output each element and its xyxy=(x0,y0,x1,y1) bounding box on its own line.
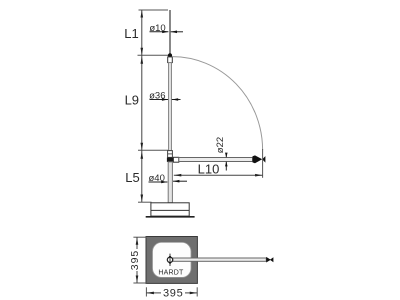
arrow o10 left xyxy=(162,31,168,34)
collar at arm joint xyxy=(168,151,173,158)
extension tick square bottom-right xyxy=(196,287,198,296)
position mark vertical line xyxy=(169,254,171,266)
svg-text:L5: L5 xyxy=(125,170,139,185)
svg-text:ø36: ø36 xyxy=(149,91,165,102)
svg-text:L10: L10 xyxy=(198,162,220,177)
arrow 395 bottom left xyxy=(147,292,154,295)
bowtie arm end (bottom view) xyxy=(266,257,273,263)
ground line xyxy=(146,216,195,218)
arrow o22 down xyxy=(225,153,228,158)
leader o10 underline xyxy=(150,31,169,33)
node dot joint xyxy=(168,53,172,57)
dimension line 395 left upper xyxy=(136,237,138,249)
pole bottom section o40 xyxy=(168,162,172,203)
svg-text:395: 395 xyxy=(163,287,183,299)
inner rounded cutout xyxy=(153,242,192,277)
bowtie arm end (side view) xyxy=(253,155,266,163)
extension line top (pole top) xyxy=(139,9,169,11)
arrow o36 left xyxy=(162,98,168,101)
extension line joint L9/L5 xyxy=(138,149,168,151)
arrow o36 right with tail xyxy=(172,99,181,101)
arrow L10 left xyxy=(174,174,181,177)
svg-text:395: 395 xyxy=(129,250,141,271)
dimension line 395 bottom right part xyxy=(185,292,197,294)
base plate (dark square) xyxy=(146,237,197,284)
arm tube o22 xyxy=(179,158,253,162)
arrow 395 bottom right xyxy=(190,292,197,295)
arrow o40 right with tail xyxy=(173,180,187,182)
dimension line 395 bottom left part xyxy=(146,292,161,294)
base block xyxy=(151,203,189,216)
extension tick square bottom-left xyxy=(145,287,147,296)
svg-text:HARDT: HARDT xyxy=(158,270,184,277)
arrow L9 top xyxy=(141,56,144,63)
dimension line 395 left lower xyxy=(136,271,138,283)
arrow L5 bottom xyxy=(141,195,144,202)
arrow o22 up with tail xyxy=(225,162,227,171)
extension line base top xyxy=(138,201,152,203)
leader o40 underline xyxy=(149,181,168,183)
arrow L1 bottom xyxy=(141,48,144,55)
arrow L1 top xyxy=(141,10,144,17)
svg-text:ø10: ø10 xyxy=(149,23,165,34)
collar divider xyxy=(168,153,173,155)
socket below joint xyxy=(168,57,173,63)
leader o36 underline xyxy=(150,99,169,101)
svg-text:L9: L9 xyxy=(125,92,139,107)
arrow L10 right xyxy=(255,174,262,177)
fitting block xyxy=(173,157,178,162)
arrow 395 left bottom xyxy=(136,276,139,283)
base divider xyxy=(151,209,189,211)
arc from pole top to arm end xyxy=(172,57,262,150)
position mark circle xyxy=(167,257,172,262)
svg-text:L1: L1 xyxy=(124,26,138,41)
pole top section o10 xyxy=(169,10,171,55)
dimension line L5 xyxy=(141,150,143,202)
position mark nub top xyxy=(169,256,171,258)
extension line square bottom-left xyxy=(133,282,146,284)
svg-text:ø40: ø40 xyxy=(149,173,165,184)
arrow L9 bottom xyxy=(141,143,144,150)
dimension line L10 xyxy=(174,174,263,176)
dimension line L9 xyxy=(141,55,143,150)
extension line joint L1/L9 xyxy=(138,54,171,56)
clamp block (black) xyxy=(167,158,173,162)
pole mid section o36 xyxy=(169,63,172,151)
extension line arm end vertical xyxy=(262,149,264,178)
leader o22 upper xyxy=(225,154,227,157)
arrow L5 top xyxy=(141,152,144,159)
arrow 395 left top xyxy=(136,237,139,244)
arrow o40 left xyxy=(161,181,167,184)
arm (bottom view) xyxy=(173,258,266,261)
arrow o10 right with tail xyxy=(171,31,183,33)
extension line square top-left xyxy=(133,236,146,238)
dimension line L1 xyxy=(141,10,143,55)
position mark nub bottom xyxy=(169,262,171,264)
svg-text:ø22: ø22 xyxy=(215,137,226,153)
